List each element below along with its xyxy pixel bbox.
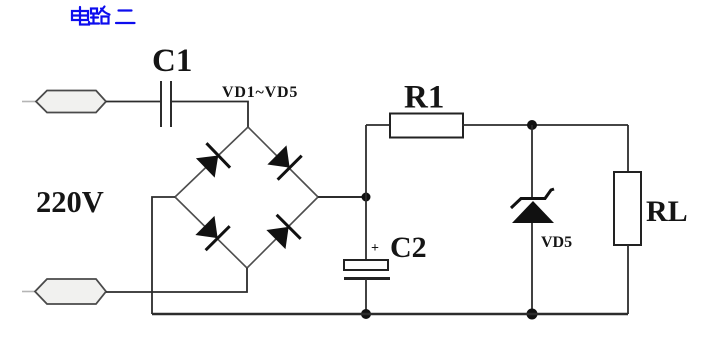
- node B (junction dot on top rail): [527, 120, 537, 130]
- wire vertical x=366 (top rail corner to C2): [365, 125, 367, 260]
- terminal T1 (top AC input): [22, 101, 36, 103]
- wire bridge left vertex to bottom rail: [152, 197, 175, 314]
- wire bridge right vertex to node A: [318, 196, 366, 198]
- resistor R1: [390, 114, 463, 138]
- wire zener branch bottom: [531, 223, 533, 314]
- diode VD3 (lower-left arm): [193, 213, 230, 250]
- svg-text:VD5: VD5: [541, 234, 572, 251]
- bridge wires (diamond): [175, 127, 318, 268]
- 电: [79, 7, 81, 21]
- svg-text:C1: C1: [152, 43, 192, 79]
- title 电路二: [72, 7, 135, 25]
- wire C1 to bridge top vertex: [171, 102, 248, 128]
- capacitor C2: [344, 260, 388, 270]
- svg-text:VD1~VD5: VD1~VD5: [222, 84, 298, 101]
- node C (junction dot bottom rail at C2): [361, 309, 371, 319]
- svg-text:220V: 220V: [36, 185, 104, 219]
- diode VD4 (lower-right arm): [264, 215, 301, 252]
- 路: [91, 9, 97, 14]
- wire T1 to C1: [106, 101, 161, 103]
- svg-text:R1: R1: [404, 80, 444, 116]
- diode VD1 (upper-left arm): [193, 143, 230, 180]
- node D (junction dot bottom rail at zener): [527, 309, 538, 320]
- terminal T2 (bottom AC input): [22, 291, 35, 293]
- wire C2 to bottom rail: [365, 279, 367, 314]
- node A (junction dot): [362, 193, 371, 202]
- wire top rail right segment: [462, 124, 628, 126]
- capacitor C1: [161, 81, 171, 127]
- wire zener branch top: [531, 125, 533, 198]
- 二: [119, 9, 132, 11]
- diode VD2 (upper-right arm): [265, 143, 302, 180]
- svg-text:RL: RL: [646, 195, 688, 228]
- svg-text:+: +: [371, 241, 379, 256]
- wire bottom rail: [152, 313, 628, 315]
- wire right branch to RL: [627, 125, 629, 172]
- wire RL bottom to rail: [627, 245, 629, 314]
- zener diode VD5: [512, 201, 554, 223]
- wire top rail left segment: [366, 124, 390, 126]
- wire T2 to bridge bottom vertex: [106, 268, 247, 292]
- resistor RL: [614, 172, 641, 245]
- svg-text:C2: C2: [390, 231, 427, 264]
